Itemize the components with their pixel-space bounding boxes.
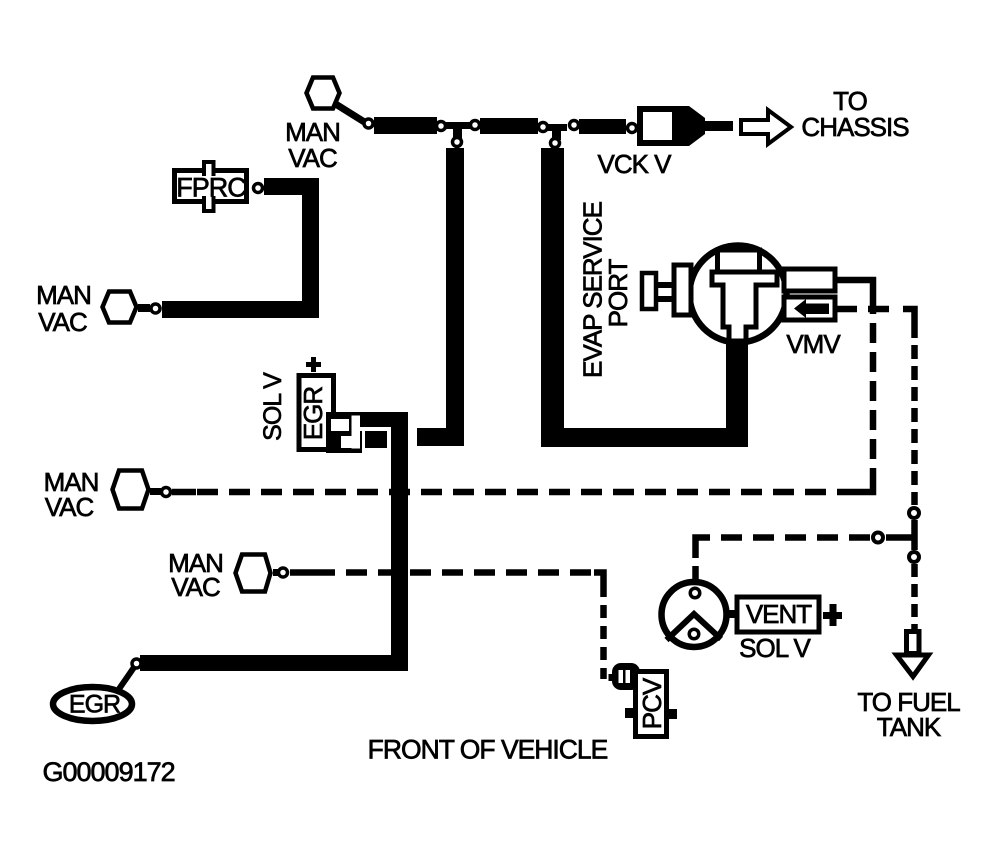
svg-text:EGR: EGR [69,691,120,719]
hexagon MAN VAC 2 (FPRC loop) [103,292,137,323]
svg-text:EGR: EGR [298,387,328,441]
hose: VMV bottom leg [726,341,748,431]
symbol: chevron inside VENT SOL V [667,614,722,640]
node: manifold T-junction 1 [445,122,472,129]
svg-text:FPRC: FPRC [176,173,246,203]
node: hose end circle c7 [570,121,579,130]
symbol: black arrow in VMV bottom port [794,299,829,318]
hexagon MAN VAC 3 (y492 dashed line) [113,471,149,509]
hose: EGR SOL V top port elbow going right [358,412,408,427]
svg-text:FRONT OF VEHICLE: FRONT OF VEHICLE [368,735,608,765]
svg-text:TANK: TANK [877,712,942,742]
svg-text:VMV: VMV [786,329,841,359]
component EGR SOL V: plus terminal [306,362,321,367]
component FPRC: box [175,171,247,202]
component VENT SOL V: body circle [662,582,727,647]
svg-text:VAC: VAC [171,572,220,602]
symbol: to fuel tank arrow [907,632,920,654]
hose: vertical bar 1 from T-junction 1 [446,148,464,430]
wire: diagonal from MAN VAC hexagon 1 to manifold [334,103,366,123]
component: EVAP service port prongs [656,282,674,288]
svg-text:VAC: VAC [288,143,337,173]
node: hose end circle at hexagon 3 [162,488,171,497]
svg-text:CHASSIS: CHASSIS [801,112,909,142]
svg-text:SOL V: SOL V [739,633,811,663]
hose: bottom elbow of bar 1 (to EGR SOL V lower port, crossing gap) [417,428,464,446]
node: hose end circle c5 [539,123,548,132]
node: hose end circle c6 [551,139,560,148]
node: junction circle on y537 line [873,533,883,543]
component VMV: bottom right port [784,297,835,320]
component: EVAP service port inner fitting [674,265,691,315]
hose: manifold segment A [374,117,437,134]
wire: diagonal from EGR to hose [119,663,137,689]
hose: vertical bar 2 from T-junction 2 [541,148,564,430]
wire: dashed line MAN VAC (y572) down to PCV [290,573,604,680]
node: hose end circle c2 [437,122,446,131]
component EGR: ellipse [53,687,132,721]
hose: FPRC loop (FPRC to MAN VAC hexagon) [162,178,319,318]
hose: EGR SOL V lower port stub (crossing behind vertical hose) [365,431,387,448]
symbol: outlined arrow to chassis [741,110,791,144]
wire: dashed vacuum line from VMV bottom port to fuel tank junction (x914) [836,309,915,629]
wire: dashed vacuum line from VMV top port down right side to MAN VAC (y492) [172,280,873,492]
node: hose end circle at hexagon 4 [279,568,288,577]
component PCV: box [636,672,667,737]
hose: VCK V outlet stub [705,121,733,131]
hose: manifold segment B [480,118,538,134]
svg-text:VAC: VAC [45,492,94,522]
node: VENT SOL V top port circle [690,588,700,598]
component PCV: ribbed elbow [609,674,617,681]
svg-text:PCV: PCV [637,677,667,729]
hexagon MAN VAC 4 (y572 dashed line) [236,555,271,592]
node: VENT SOL V bottom circle [689,629,699,639]
wire: connector bar from VENT SOL V to VENT box [726,610,737,618]
node: hose end circle c1 [364,119,373,128]
svg-text:VCK V: VCK V [597,149,672,179]
hexagon MAN VAC 1 (top) [307,78,340,109]
svg-text:VENT: VENT [746,599,812,629]
hose: bottom run from bar 2 to VMV [541,428,748,447]
svg-text:SOL V: SOL V [259,372,287,441]
hose: manifold segment C [579,119,626,134]
component VMV: body circle [690,246,787,343]
component VMV: top right port [784,269,835,291]
node: junction circle x914 lower [909,552,919,562]
wire: solid line from VMV top port [835,277,876,283]
node: junction circle x914 upper [909,508,919,518]
node: manifold T-junction 2 [547,124,567,131]
svg-text:G00009172: G00009172 [43,757,175,787]
component: EVAP service port outer cap [642,273,656,309]
wire: junction horizontal line to VENT SOL V (y537) [696,538,915,590]
component: VENT box [737,597,819,632]
node: hose end circle at hexagon 2 [151,304,160,313]
component FPRC: vertical tab [204,162,214,176]
node: FPRC outlet circle [254,184,263,193]
svg-text:VAC: VAC [38,307,87,337]
node: hose end circle c4 [471,121,480,130]
hose: bottom horizontal to EGR [140,655,408,671]
component EGR SOL V: stepped connector [326,412,362,453]
node: hose end circle c3 [453,138,462,147]
svg-text:MAN: MAN [36,280,91,310]
component EGR SOL V: box [299,376,334,450]
node: hose end circle at EGR hose [132,659,141,668]
component PCV: side tabs [625,708,633,718]
svg-text:PORT: PORT [603,259,633,328]
component: VENT plus terminal [823,612,842,619]
component VMV: internal T valve [712,272,777,341]
hose: long vertical from EGR SOL V to EGR [391,412,408,670]
component VCK V: check valve body [637,106,705,146]
node: hose end circle c8 [628,124,637,133]
